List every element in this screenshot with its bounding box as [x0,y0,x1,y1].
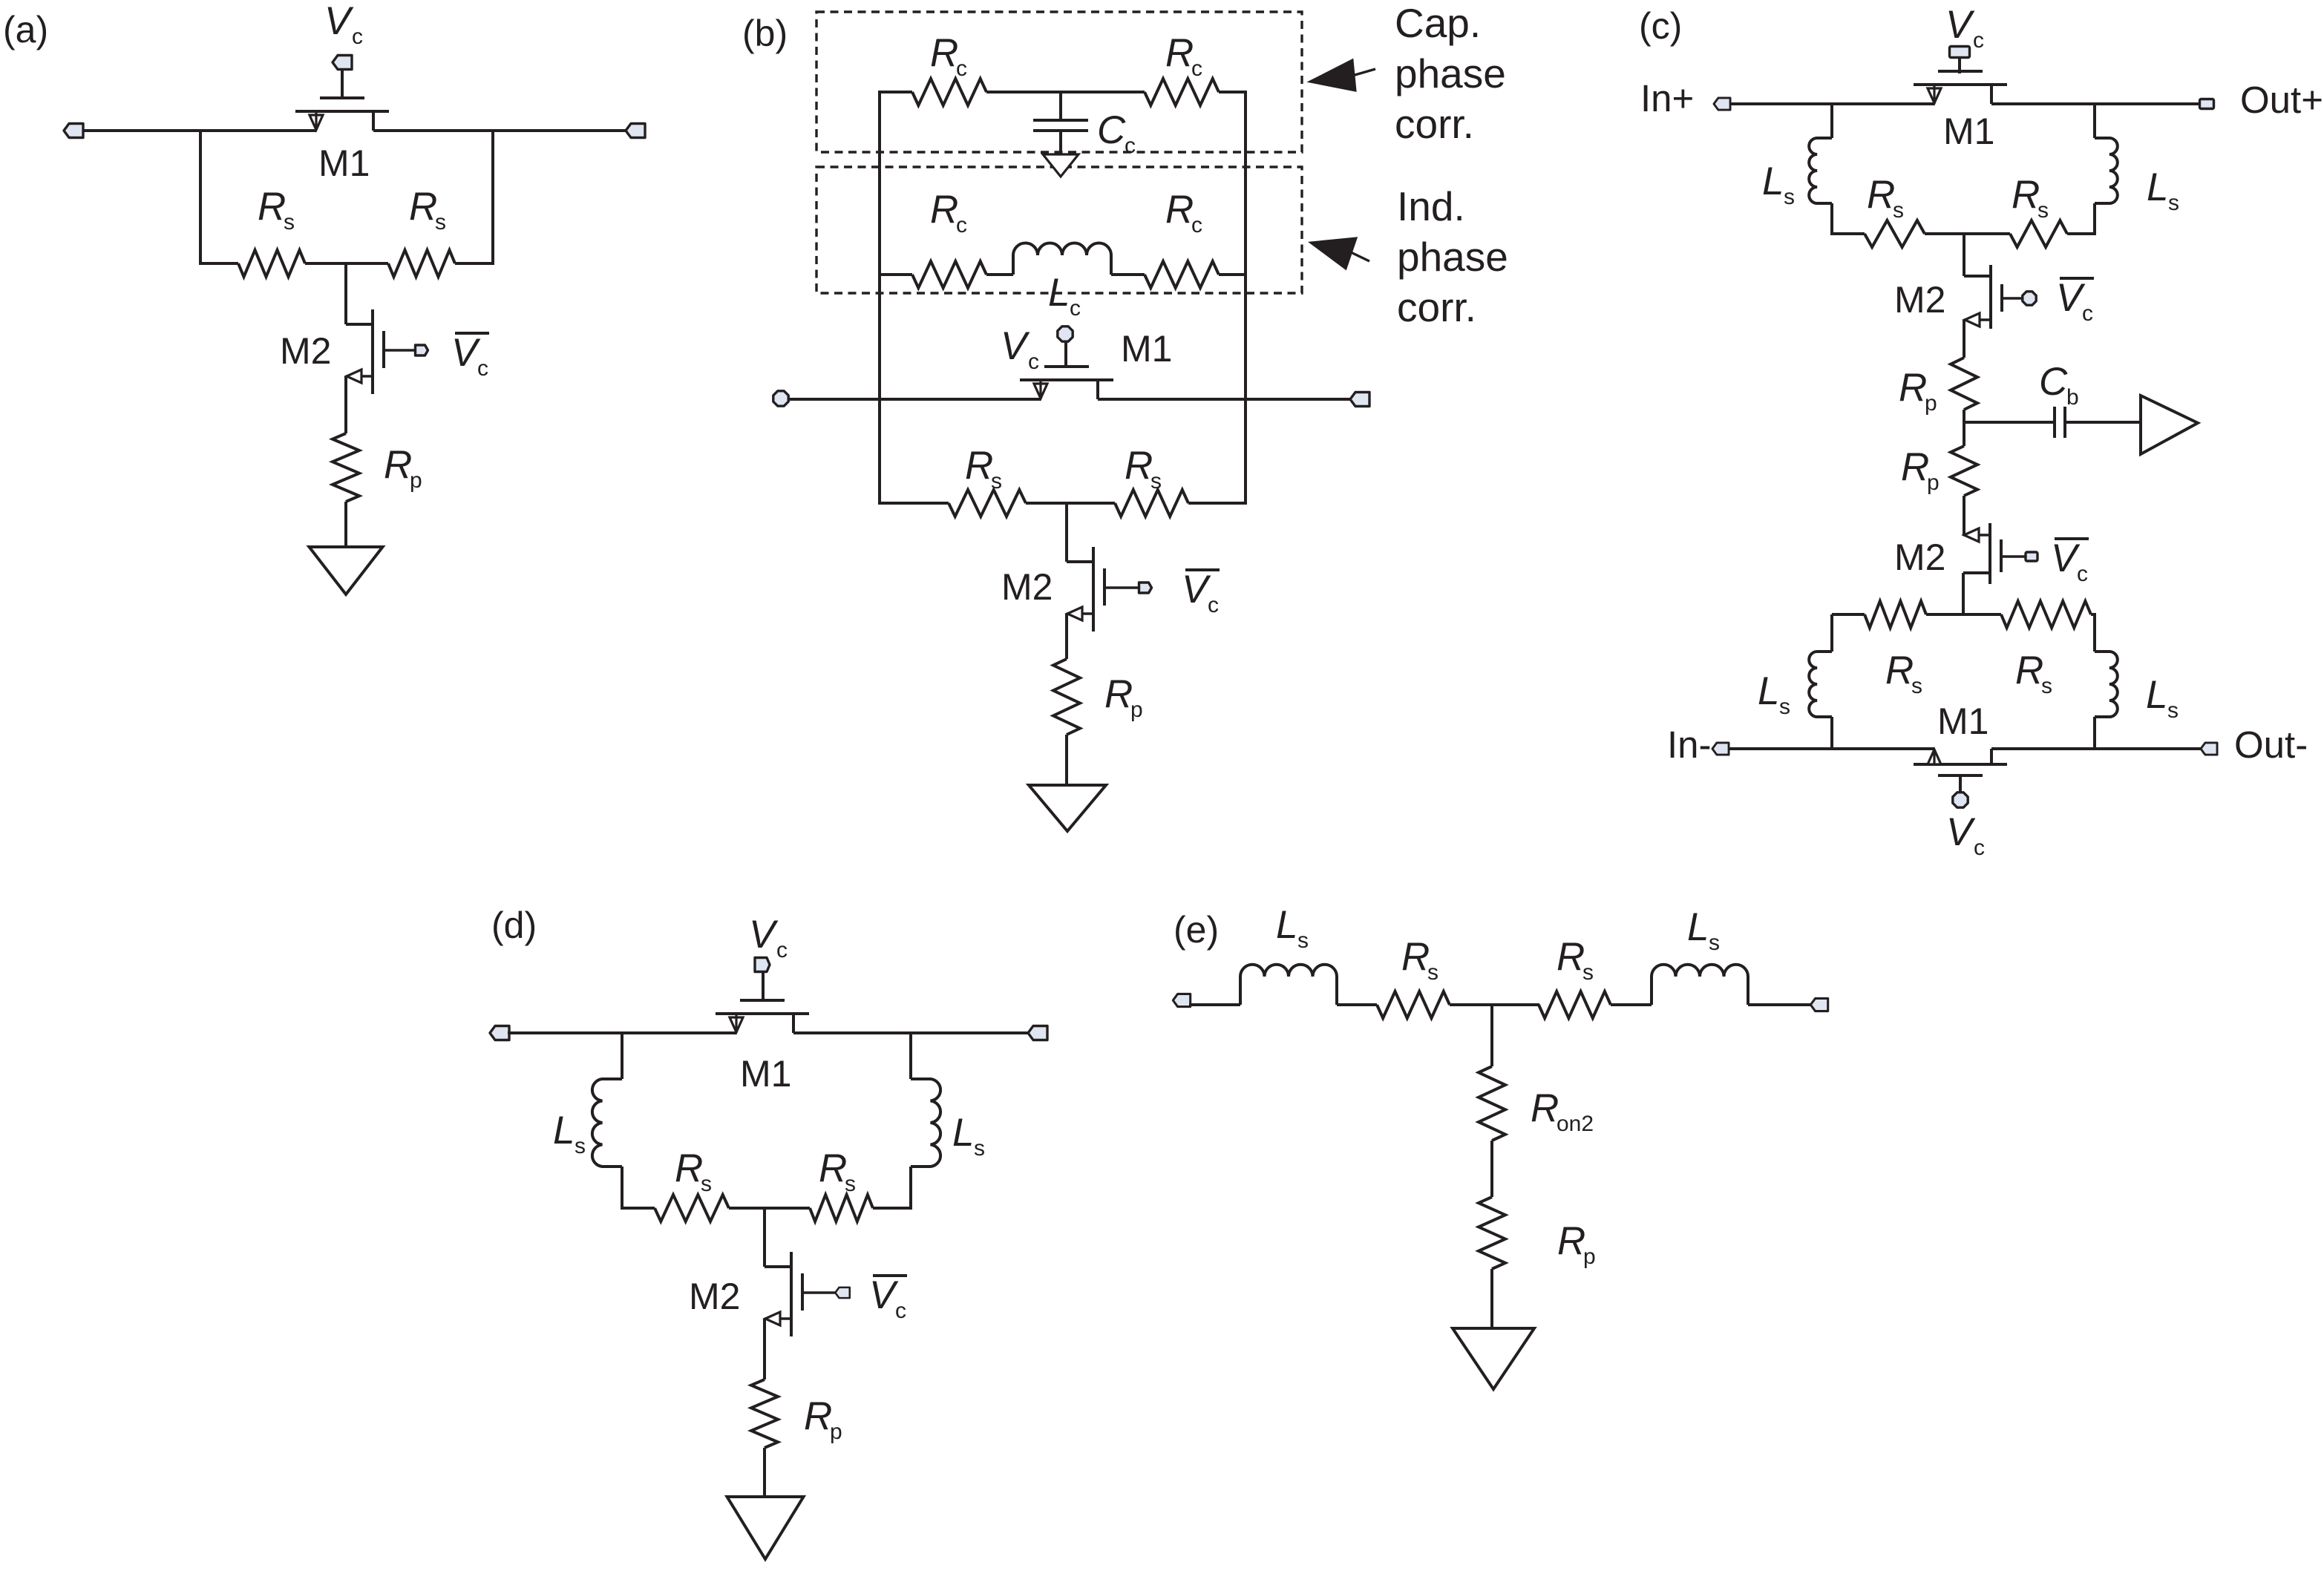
label Out+ (c) [2240,79,2323,121]
svg-text:V: V [1945,3,1975,47]
capacitor C_c (b) [1033,120,1088,131]
svg-text:L: L [1758,669,1779,713]
resistor R_s (c) top-right [2010,220,2067,247]
label L_c (b) [1048,271,1081,321]
ground (d) [727,1497,804,1559]
label M1 (a) [318,142,370,184]
transistor M2 (c-lower) gate bar [2000,539,2003,572]
label C_b (c) [2039,360,2079,410]
label M1 top (c) [1943,111,1994,152]
label V_c bar (b) [1182,568,1220,617]
wire cap row right (b) [1219,91,1247,94]
wire left vertical (b) [878,92,881,505]
svg-text:p: p [410,468,422,493]
wire node to M2 (d) [763,1208,766,1267]
label C_c (b) [1097,108,1136,158]
svg-text:R: R [1125,444,1153,488]
svg-text:s: s [1582,960,1594,985]
inductor L_s (e) right [1652,965,1748,1005]
wire in (e) [1189,1003,1240,1006]
label L_s (e) right [1687,905,1720,955]
svg-text:In-: In- [1667,724,1712,766]
svg-text:(a): (a) [3,9,48,50]
label R_s (c) bottom-right [2015,649,2052,698]
wire node to M2 upper (c) [1963,234,1965,276]
svg-text:L: L [952,1111,974,1155]
label R_p (b) [1104,672,1143,722]
wire to ground (e) [1490,1269,1493,1328]
inductor L_s (c) top-right [2095,138,2118,203]
svg-text:c: c [1974,836,1985,860]
svg-text:phase: phase [1397,234,1508,280]
terminal gate Vc-bar (d) [835,1287,850,1298]
transistor M1 (b) drain lead [1096,380,1099,399]
svg-text:V: V [2056,276,2086,320]
label R_c (b) mid-right [1165,188,1202,237]
wire shunt row left (b) [880,502,949,505]
wire shunt row left bottom (c) [1832,613,1865,616]
svg-text:p: p [1927,470,1940,495]
svg-text:R: R [930,31,958,75]
label R_s (a) left [258,185,295,234]
transistor M2 (c-lower) drain lead with arrow [1963,528,1990,542]
wire R_p to M2 lower (c) [1963,496,1965,535]
resistor R_p (e) [1479,1197,1505,1269]
svg-text:R: R [384,443,412,487]
wire to node (e) [1450,1003,1539,1006]
svg-text:corr.: corr. [1395,101,1474,147]
wire ind row r2 (b) [1111,273,1145,276]
wire In- (c) [1728,747,1934,750]
port terminal right (a) [626,124,645,138]
transistor M1 (c-top) source arrow [1928,85,1941,104]
transistor M2 (c-lower) gate lead [2001,555,2035,558]
svg-text:c: c [956,56,967,81]
resistor R_c (b) top-right [1145,79,1219,105]
svg-text:c: c [1028,350,1039,374]
svg-text:c: c [1208,593,1219,617]
port terminal left (d) [490,1026,509,1040]
svg-text:L: L [1048,271,1070,315]
wire to ground (b) [1065,735,1068,785]
label L_s (d) right [952,1111,985,1161]
svg-text:s: s [991,469,1002,493]
svg-text:s: s [1893,198,1904,223]
transistor M1 (c-bottom) channel [1914,763,2007,766]
label R_p upper (c) [1899,366,1937,416]
svg-text:c: c [1973,28,1984,53]
node V_c label (b) [1001,324,1039,374]
label R_s (b) left [965,444,1002,493]
resistor R_s (b) left [949,490,1026,516]
label M2 (b) [1001,566,1053,608]
transistor M1 (a) drain lead [372,111,375,131]
inductor L_s (c) bottom-right [2095,652,2118,717]
wire gate lead M1 (b) [1064,341,1067,366]
wire node to M2 (b) [1065,503,1068,562]
svg-text:V: V [451,331,481,375]
svg-text:s: s [2037,198,2049,223]
wire shunt row right (a) [455,262,494,265]
inductor L_s (c) top-left [1809,138,1832,203]
dashed box inductive phase corrector (b) [816,167,1302,293]
transistor M2 (c-upper) gate lead [2002,297,2023,300]
svg-text:p: p [830,1420,842,1444]
svg-text:(c): (c) [1639,5,1682,47]
port terminal right (d) [1028,1026,1047,1040]
svg-text:V: V [1001,324,1030,368]
svg-text:c: c [1125,134,1136,158]
terminal V_c (a) [333,56,352,70]
wire shunt row left (a) [199,262,238,265]
svg-text:M1: M1 [740,1053,791,1095]
annotation text Cap. (b) [1395,0,1481,46]
ground (a) [310,547,383,594]
transistor M2 (c-upper) drain lead [1964,275,1991,278]
resistor R_on2 (e) [1479,1066,1505,1141]
label L_s (c) bottom-right [2146,673,2179,723]
svg-text:In+: In+ [1640,77,1694,119]
annotation text phase2 (b) [1397,234,1508,280]
transistor M2 (d) channel [790,1252,793,1336]
svg-text:R: R [1885,649,1914,692]
wire right drop2 top (c) [2093,203,2096,235]
transistor M1 (c-bottom) gate bar [1938,774,1983,777]
svg-text:s: s [1911,674,1922,698]
svg-text:L: L [2147,165,2168,209]
transistor M2 (c-lower) source lead [1963,571,1990,574]
svg-text:M2: M2 [1894,279,1945,321]
svg-text:M1: M1 [1937,701,1989,742]
label V_c bar (a) [451,331,489,381]
label In+ (c) [1640,77,1694,119]
label L_s (e) left [1276,903,1309,953]
svg-text:R: R [819,1146,847,1190]
svg-text:phase: phase [1395,50,1506,96]
wire shunt row right bottom (c) [2091,613,2096,616]
wire cap row left (b) [878,91,912,94]
transistor M2 (a) channel [371,309,374,394]
port terminal right (e) [1810,998,1827,1011]
wire coil to R_s (e) [1337,1003,1377,1006]
transistor M1 (d) gate bar [740,999,785,1002]
capacitor C_b (c) [2055,407,2065,438]
transistor M2 (c-upper) source lead with arrow [1964,313,1991,327]
svg-text:c: c [2077,562,2088,586]
svg-text:s: s [1784,185,1795,209]
transistor M2 (a) drain lead [346,323,373,326]
svg-text:R: R [1401,935,1430,979]
label R_s (a) right [409,185,446,234]
label M1 (d) [740,1053,791,1095]
figure label (b) [742,13,788,54]
svg-text:V: V [869,1273,899,1317]
wire output right (d) [793,1031,1030,1034]
port terminal In+ (c) [1714,98,1730,110]
capacitor C_c lead (b) [1059,92,1062,120]
label R_on2 (e) [1531,1086,1594,1136]
wire output right (a) [373,129,627,132]
wire cap to amp (c) [2065,421,2141,424]
svg-text:M1: M1 [1943,111,1994,152]
svg-text:s: s [2168,191,2179,215]
node V_c label (a) [324,0,363,49]
terminal V_c bottom (c) [1953,793,1968,807]
wire to ground (a) [344,502,347,547]
transistor M1 (b) gate bar [1044,365,1089,368]
resistor R_s (b) right [1115,490,1188,516]
svg-text:R: R [1901,445,1929,489]
inductor L_s (c) bottom-left [1809,652,1832,717]
svg-text:M1: M1 [318,142,370,184]
wire right drop2 bottom (c) [2093,717,2096,749]
transistor M2 (c-upper) gate bar [2000,284,2003,312]
terminal V_c (b) [1058,327,1073,341]
resistor R_p (a) [333,433,359,502]
svg-text:s: s [1297,928,1309,953]
label L_s (c) bottom-left [1758,669,1790,719]
wire left drop2 top (c) [1830,203,1833,235]
port terminal Out+ (c) [2200,99,2214,109]
transistor M2 (d) gate lead [802,1291,840,1294]
wire between R_s (a) [305,262,388,265]
wire R_s to coil (e) [1611,1003,1652,1006]
wire Out+ (c) [1991,102,2200,105]
inductor L_s (d) right [911,1079,940,1167]
wire right vertical (b) [1244,92,1247,505]
wire between R_s bottom (c) [1926,613,2001,616]
resistor R_s (d) right [810,1195,873,1221]
label R_p lower (c) [1901,445,1940,495]
wire left drop (d) [621,1033,623,1079]
label R_s (b) right [1125,444,1162,493]
amplifier buffer (c) [2141,396,2198,454]
svg-text:s: s [1150,469,1162,493]
port terminal left (a) [64,124,83,138]
wire M2 source down (a) [344,376,347,433]
label V_c bar upper (c) [2056,276,2094,326]
svg-text:R: R [1531,1086,1559,1130]
wire shunt row right top (c) [2067,232,2096,235]
transistor M2 (b) gate bar [1103,568,1106,606]
transistor M2 (d) source lead with arrow [765,1312,791,1325]
svg-text:L: L [1762,160,1784,203]
resistor R_s (a) left [238,250,305,277]
svg-text:p: p [1130,698,1143,722]
svg-text:M2: M2 [1001,566,1053,608]
resistor R_s (e) left [1377,991,1450,1018]
transistor M2 (b) source lead with arrow [1067,607,1093,620]
inductor L_c (b) [1013,243,1111,275]
terminal gate Vc-bar (b) [1139,583,1152,593]
svg-text:R: R [1557,1219,1585,1263]
resistor R_p upper (c) [1951,358,1977,410]
transistor M1 (d) channel [716,1012,809,1015]
svg-text:s: s [1779,695,1790,719]
svg-text:Ind.: Ind. [1397,183,1465,229]
wire Out- (c) [1991,747,2202,750]
svg-text:b: b [2066,385,2079,410]
transistor M1 (c-top) gate bar [1938,70,1983,73]
svg-text:Out+: Out+ [2240,79,2323,121]
wire cap row mid (b) [986,91,1145,94]
transistor M2 (a) source lead with arrow [346,370,373,383]
port terminal Out- (c) [2201,743,2217,755]
svg-text:R: R [804,1394,832,1438]
transistor M1 (b) channel [1020,378,1113,381]
label R_s (e) left [1401,935,1438,985]
label M2 lower (c) [1894,537,1945,578]
wire right drop (a) [491,131,494,263]
wire M2 source down upper (c) [1963,320,1965,358]
label R_s (e) right [1557,935,1594,985]
svg-text:L: L [1687,905,1709,949]
transistor M2 (d) gate bar [801,1273,804,1310]
wire left drop (a) [199,131,202,263]
svg-text:L: L [2146,673,2167,717]
figure label (d) [491,905,537,946]
inductor L_s (d) left [592,1079,622,1167]
wire left drop top (c) [1830,104,1833,138]
resistor R_s (a) right [388,250,455,277]
svg-text:R: R [675,1146,703,1190]
svg-text:R: R [258,185,286,229]
label M2 (a) [280,330,331,372]
wire node down (e) [1490,1005,1493,1066]
wire right drop bottom (c) [2093,614,2096,652]
wire tap node (c) [1964,410,2055,445]
label M1 (b) [1121,328,1172,370]
label In- (c) [1667,724,1712,766]
svg-text:R: R [2015,649,2043,692]
label M2 upper (c) [1894,279,1945,321]
transistor M2 (b) gate lead [1104,586,1142,589]
transistor M2 (c-lower) channel [1989,523,1991,584]
wire right drop (d) [909,1033,912,1079]
svg-text:c: c [352,24,363,49]
label R_p (d) [804,1394,842,1444]
wire right drop2 (d) [909,1167,912,1210]
svg-text:s: s [2167,698,2179,723]
transistor M2 (a) gate lead [384,349,422,352]
transistor M1 (a) channel [295,110,389,113]
svg-text:M2: M2 [689,1276,740,1317]
svg-text:(e): (e) [1174,909,1219,951]
terminal gate Vc-bar lower (c) [2026,552,2037,561]
svg-text:V: V [1182,568,1211,611]
svg-text:M2: M2 [1894,537,1945,578]
svg-text:s: s [575,1134,586,1158]
resistor R_s (d) left [655,1195,729,1221]
resistor R_c (b) mid-left [912,261,986,288]
ground (e) [1453,1328,1534,1389]
transistor M1 (d) source arrow [730,1014,743,1033]
svg-text:s: s [284,210,295,234]
wire between R_s top (c) [1925,232,2010,235]
svg-text:(b): (b) [742,13,788,54]
transistor M1 (c-bottom) drain lead [1990,749,1993,764]
wire gate lead M1 (a) [341,69,344,97]
resistor R_s (c) bottom-left [1865,601,1926,628]
label L_s (c) top-right [2147,165,2179,215]
wire to ground (d) [763,1448,766,1497]
wire ind row l2 (b) [986,273,1013,276]
wire input left (a) [82,129,316,132]
ground (b) [1029,785,1106,831]
svg-text:R: R [1104,672,1133,716]
inductor L_s (e) left [1240,965,1337,1005]
wire In+ (c) [1729,102,1934,105]
wire M2 lower source down (c) [1962,573,1965,616]
annotation text Ind. (b) [1397,183,1465,229]
label R_c (b) top-right [1165,31,1202,81]
terminal gate Vc-bar (a) [416,345,428,355]
port terminal left (e) [1173,994,1190,1006]
wire ind row left (b) [878,273,912,276]
transistor M2 (b) drain lead [1067,560,1093,563]
transistor M1 (b) source arrow [1034,380,1047,399]
svg-text:(d): (d) [491,905,537,946]
svg-text:c: c [776,938,788,962]
svg-text:on2: on2 [1557,1112,1594,1136]
transistor M1 (a) source arrow [310,111,323,131]
transistor M1 (d) drain lead [792,1014,795,1033]
resistor R_c (b) top-left [912,79,986,105]
resistor R_c (b) mid-right [1145,261,1219,288]
capacitor ground arrow (b) [1043,131,1078,177]
svg-text:C: C [2039,360,2068,404]
node V_c label bottom (c) [1946,810,1985,860]
annotation arrow inductive (b) [1311,238,1369,269]
wire shunt row left top (c) [1832,232,1865,235]
wire gate lead M1 bottom (c) [1959,777,1962,793]
svg-text:c: c [477,356,488,381]
annotation text corr.2 (b) [1397,284,1476,330]
label R_c (b) top-left [930,31,967,81]
transistor M2 (b) channel [1092,547,1095,632]
svg-text:s: s [1427,960,1438,985]
svg-text:s: s [435,210,446,234]
svg-text:L: L [553,1109,575,1152]
svg-text:s: s [845,1172,856,1196]
wire gate lead M1 top (c) [1958,57,1961,73]
svg-text:c: c [1070,296,1081,321]
figure label (c) [1639,5,1682,47]
transistor M1 (a) gate bar [320,96,364,99]
wire gate lead M1 (d) [762,971,765,999]
wire ind row right (b) [1219,273,1247,276]
svg-text:C: C [1097,108,1126,152]
svg-text:R: R [1165,31,1194,75]
label R_p (a) [384,443,422,493]
wire R_on2 to R_p (e) [1490,1141,1493,1197]
svg-text:L: L [1276,903,1297,947]
transistor M2 (c-upper) channel [1989,265,1992,329]
svg-text:V: V [749,913,779,957]
svg-text:V: V [1946,810,1976,854]
wire input left (b) [788,398,1041,401]
transistor M1 (c-bottom) source arrow [1928,749,1941,764]
svg-text:corr.: corr. [1397,284,1476,330]
svg-text:R: R [409,185,437,229]
wire node to R_p lower (c) [1963,445,1965,446]
label V_c bar (d) [869,1273,907,1323]
svg-text:p: p [1925,391,1937,416]
svg-text:s: s [2041,674,2052,698]
label L_s (c) top-left [1762,160,1795,209]
svg-text:c: c [1191,213,1202,237]
wire shunt row right (d) [873,1207,912,1210]
